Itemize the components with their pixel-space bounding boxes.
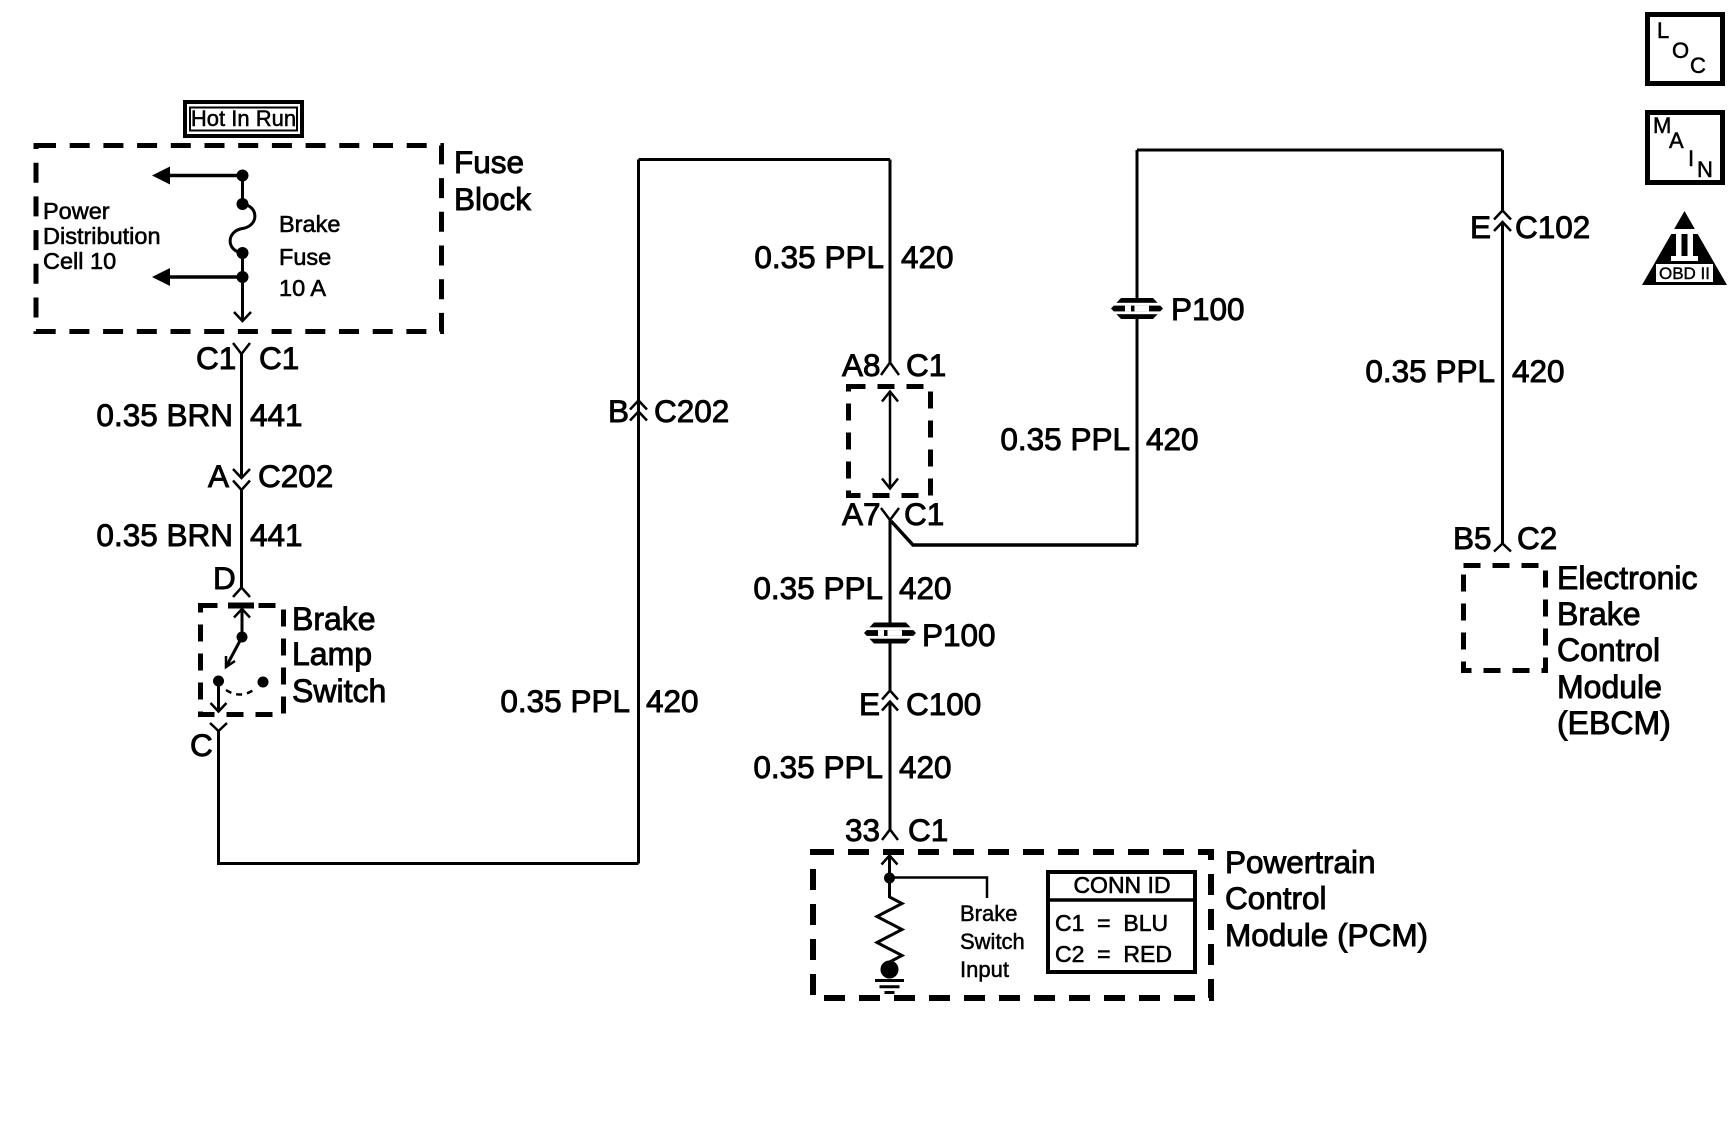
OBD II icon: [1642, 211, 1727, 285]
fuse block dashed box: [36, 146, 442, 332]
svg-text:420: 420: [1512, 353, 1565, 389]
EBCM branch riser: [1136, 319, 1139, 545]
connector B5 C2: [1453, 520, 1557, 556]
svg-text:I: I: [1688, 146, 1694, 171]
svg-text:420: 420: [899, 749, 952, 785]
svg-text:441: 441: [250, 397, 303, 433]
svg-text:L: L: [1657, 18, 1669, 43]
wire label 0.35 PPL 420 center mid: [753, 570, 951, 606]
resistor (pull-up) in PCM: [877, 878, 902, 968]
svg-text:Control: Control: [1225, 880, 1327, 916]
svg-text:C1 = BLU: C1 = BLU: [1055, 910, 1168, 936]
svg-text:C: C: [1690, 53, 1706, 78]
svg-text:N: N: [1697, 157, 1713, 182]
junction dot lower: [237, 271, 249, 283]
svg-text:OBD II: OBD II: [1659, 264, 1710, 283]
svg-text:Brake: Brake: [279, 211, 340, 237]
connector A7 C1: [842, 496, 944, 532]
svg-text:C202: C202: [258, 458, 333, 494]
wire label 0.35 PPL 420 right: [1365, 353, 1564, 389]
svg-text:10 A: 10 A: [279, 275, 326, 301]
wire label 0.35 BRN 441 lower: [96, 517, 302, 553]
ground ball: [881, 961, 899, 979]
svg-text:0.35 PPL: 0.35 PPL: [1365, 353, 1495, 389]
power feed arrow upper: [152, 167, 243, 185]
svg-text:(EBCM): (EBCM): [1557, 705, 1671, 741]
svg-text:Switch: Switch: [292, 673, 386, 709]
svg-text:C1: C1: [196, 340, 236, 376]
fuse element (Brake Fuse 10 A): [230, 198, 255, 259]
svg-text:B: B: [608, 393, 629, 429]
grommet P100 lower: [864, 617, 996, 653]
wire label 0.35 PPL 420 left: [500, 683, 698, 719]
MAIN reference box: [1648, 113, 1723, 183]
junction dot in PCM: [884, 873, 895, 884]
svg-text:C1: C1: [904, 496, 944, 532]
svg-text:441: 441: [250, 517, 303, 553]
wire label 0.35 PPL 420 center low: [753, 749, 951, 785]
svg-text:Module (PCM): Module (PCM): [1225, 917, 1428, 953]
wire 441 upper: [240, 354, 243, 478]
wire riser above P100: [1136, 150, 1139, 298]
svg-text:CONN ID: CONN ID: [1073, 872, 1170, 898]
brake switch input label: [960, 901, 1025, 982]
C1 pass-through dashed box: [849, 387, 931, 496]
brake lamp switch dashed box: [201, 606, 284, 715]
connector D at brake lamp switch: [213, 560, 250, 597]
svg-text:C1: C1: [259, 340, 299, 376]
PCM input arrow: [882, 856, 898, 879]
wire 441 lower: [240, 490, 243, 588]
svg-text:0.35 PPL: 0.35 PPL: [754, 239, 884, 275]
svg-text:C2 = RED: C2 = RED: [1055, 941, 1172, 967]
svg-text:0.35 PPL: 0.35 PPL: [500, 683, 630, 719]
wire center drop: [889, 160, 892, 363]
EBCM label: [1557, 560, 1698, 741]
wire right drop: [1501, 150, 1504, 210]
wire to PCM: [889, 702, 892, 830]
Hot In Run label box: [185, 102, 302, 136]
svg-text:A: A: [208, 458, 229, 494]
svg-text:P100: P100: [1171, 291, 1245, 327]
wire label 0.35 PPL 420 branch: [1000, 421, 1198, 457]
wire top horizontal right: [1137, 149, 1503, 152]
fuse output arrow to connector: [234, 277, 251, 321]
svg-text:P100: P100: [922, 617, 996, 653]
svg-text:0.35 PPL: 0.35 PPL: [1000, 421, 1130, 457]
wire from C down: [217, 731, 220, 864]
svg-text:420: 420: [901, 239, 954, 275]
brake fuse value label: [279, 211, 340, 301]
switch lever: [226, 637, 242, 667]
svg-text:Module: Module: [1557, 669, 1662, 705]
svg-text:Block: Block: [454, 181, 531, 217]
PCM label: [1225, 844, 1428, 953]
wire top horizontal left: [639, 158, 891, 161]
CONN ID table: [1046, 872, 1195, 972]
svg-text:Fuse: Fuse: [454, 144, 524, 180]
svg-text:A8: A8: [842, 347, 881, 383]
wire label 0.35 PPL 420 center top: [754, 239, 953, 275]
svg-text:C1: C1: [908, 812, 948, 848]
svg-text:33: 33: [845, 812, 880, 848]
connector E C100: [859, 686, 981, 722]
svg-text:A: A: [1669, 128, 1684, 153]
fuse block label: [454, 144, 531, 217]
svg-text:0.35 PPL: 0.35 PPL: [753, 749, 883, 785]
wire to B5: [1501, 222, 1504, 544]
double-headed arrow inside C1 box: [882, 392, 898, 489]
svg-text:C100: C100: [906, 686, 981, 722]
svg-text:C102: C102: [1515, 209, 1590, 245]
svg-text:A7: A7: [842, 496, 881, 532]
svg-text:Hot In Run: Hot In Run: [191, 106, 296, 131]
ground symbol: [875, 981, 904, 993]
grommet P100 upper: [1111, 291, 1245, 327]
wire below A7: [889, 520, 892, 623]
svg-text:0.35 BRN: 0.35 BRN: [96, 517, 233, 553]
svg-text:Fuse: Fuse: [279, 244, 331, 270]
wire bottom horizontal run: [219, 862, 639, 864]
power distribution text: [43, 198, 161, 274]
svg-text:O: O: [1672, 38, 1689, 63]
svg-text:Input: Input: [960, 957, 1009, 982]
svg-text:E: E: [1470, 209, 1491, 245]
connector A C202: [208, 458, 333, 494]
LOC reference box: [1648, 15, 1723, 84]
EBCM dashed box: [1464, 566, 1546, 671]
svg-text:C2: C2: [1517, 520, 1557, 556]
svg-text:Electronic: Electronic: [1557, 560, 1698, 596]
svg-text:Cell 10: Cell 10: [43, 248, 116, 274]
wire left riser: [637, 160, 640, 864]
svg-text:420: 420: [646, 683, 699, 719]
svg-text:C: C: [190, 727, 213, 763]
jumper diagonal to EBCM branch: [891, 521, 1137, 545]
brake lamp switch label: [292, 601, 386, 709]
svg-text:Brake: Brake: [292, 601, 376, 637]
switch terminal bar: [228, 603, 254, 609]
power feed arrow lower: [152, 268, 243, 286]
wire: [241, 253, 244, 277]
connector B C202: [608, 393, 729, 429]
svg-text:Brake: Brake: [960, 901, 1017, 926]
svg-text:D: D: [213, 560, 236, 596]
svg-text:Switch: Switch: [960, 929, 1025, 954]
svg-text:0.35 BRN: 0.35 BRN: [96, 397, 233, 433]
junction dot upper: [237, 170, 249, 182]
svg-text:Powertrain: Powertrain: [1225, 844, 1376, 880]
svg-text:B5: B5: [1453, 520, 1492, 556]
connector 33 C1 at PCM: [845, 812, 948, 848]
svg-text:E: E: [859, 686, 880, 722]
svg-text:Power: Power: [43, 198, 110, 224]
PCM dashed box: [813, 852, 1211, 998]
svg-text:C202: C202: [654, 393, 729, 429]
svg-text:C1: C1: [906, 347, 946, 383]
wire: [241, 176, 244, 205]
svg-text:Lamp: Lamp: [292, 636, 372, 672]
svg-text:Control: Control: [1557, 632, 1660, 668]
brake switch input stub wire: [890, 878, 988, 899]
svg-text:Distribution: Distribution: [43, 223, 161, 249]
svg-text:Brake: Brake: [1557, 596, 1641, 632]
svg-text:420: 420: [1146, 421, 1199, 457]
switch alternate contact dashed arc: [226, 677, 269, 695]
connector C below switch: [190, 723, 227, 763]
svg-text:420: 420: [899, 570, 952, 606]
connector C1 at fuse block: [196, 340, 299, 376]
switch upper contact arrow: [234, 609, 250, 643]
wire below P100: [889, 644, 892, 691]
connector E C102: [1470, 209, 1590, 245]
svg-text:0.35 PPL: 0.35 PPL: [753, 570, 883, 606]
switch lower contact and exit arrow: [211, 676, 227, 712]
wire label 0.35 BRN 441 upper: [96, 397, 302, 433]
connector A8 C1: [842, 347, 946, 383]
